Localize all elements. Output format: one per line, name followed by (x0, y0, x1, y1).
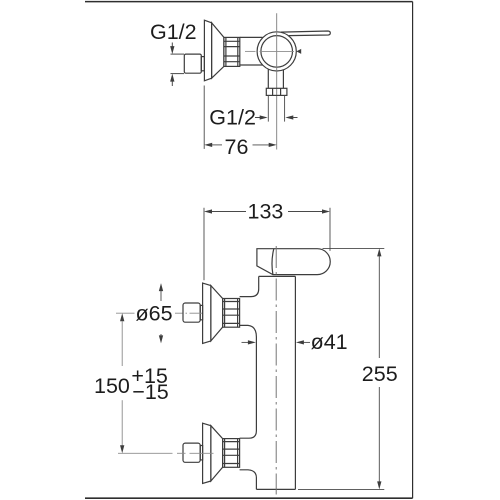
outlet pipe (top view) (268, 69, 283, 88)
column bottom edge (256, 488, 295, 490)
dimension ø65 (159, 283, 163, 343)
column right edge (294, 276, 296, 489)
valve body (top view) (240, 37, 263, 65)
dimension 76 (204, 86, 277, 149)
svg-text:76: 76 (225, 135, 249, 159)
valve outer circle (257, 32, 296, 71)
page frame top border (85, 1, 413, 3)
column centerline (275, 246, 277, 495)
lever/cap boundary arc (272, 249, 274, 275)
union nut (top view) (224, 37, 240, 66)
upper escutcheon plate (203, 283, 211, 343)
upper union nut (223, 299, 240, 328)
dimension ø41 (242, 340, 311, 344)
upper escutcheon cone (211, 286, 223, 341)
svg-text:G1/2: G1/2 (209, 105, 256, 129)
vertical centerline (top view) (276, 13, 278, 149)
lower connection body bottom, fillet, column left lower edge (240, 470, 257, 490)
outlet hex nut (266, 88, 287, 95)
valve inner circle (261, 36, 293, 68)
dimension 255 (298, 248, 384, 489)
horizontal centerline (top view) (245, 50, 294, 52)
dimension arrow up to inlet block bottom (170, 74, 184, 86)
extension lines below outlet (268, 95, 284, 121)
lower union nut (223, 439, 240, 468)
neck left edge with fillet into upper connection body (240, 276, 259, 296)
svg-text:ø41: ø41 (311, 330, 348, 354)
lower inlet block step (200, 446, 202, 460)
dimension arrow down to inlet block top (170, 43, 184, 55)
page frame right border (412, 2, 414, 499)
escutcheon cone (top view) (212, 23, 224, 78)
dimension 150 +15/-15 (120, 313, 124, 453)
svg-text:150: 150 (94, 374, 130, 398)
lower inlet block (183, 443, 200, 462)
escutcheon plate (top view) (204, 20, 211, 81)
upper connection body bottom, fillet, column left edge, fillet, lower body top (240, 325, 257, 438)
svg-text:−15: −15 (132, 380, 169, 404)
cartridge housing capsule with lever (257, 249, 330, 275)
inlet block step (201, 57, 204, 71)
svg-text:G1/2: G1/2 (150, 20, 197, 44)
lower escutcheon cone (211, 426, 223, 481)
shoulder under capsule (259, 275, 296, 277)
dimension 133 (204, 208, 330, 280)
handle indicator tick (296, 49, 301, 54)
svg-text:133: 133 (248, 200, 284, 224)
lower connection centerline (118, 452, 214, 454)
upper inlet block (183, 303, 200, 322)
lever handle (top view) (281, 31, 330, 36)
svg-text:ø65: ø65 (136, 301, 173, 325)
lower escutcheon plate (203, 423, 211, 483)
page frame bottom border (85, 497, 413, 499)
G1/2 outlet dimension arrows (255, 115, 298, 119)
upper connection centerline (116, 312, 202, 314)
inlet block (top view) (184, 54, 201, 73)
upper inlet block step (200, 305, 202, 319)
svg-text:255: 255 (362, 362, 398, 386)
